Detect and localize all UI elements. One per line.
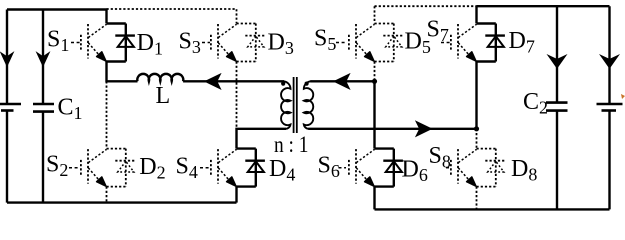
transistor S6 (IGBT): [349, 149, 375, 186]
wire: primary bottom from transformer to S4 (solid): [237, 129, 287, 149]
svg-text:L: L: [156, 83, 171, 109]
wire: capacitor C1 branch vertical: [42, 10, 44, 203]
wire: bottom-left rail: [7, 201, 237, 203]
transistor S3 (IGBT): [211, 24, 237, 61]
inductor L: [137, 74, 183, 81]
polarity dot primary: [281, 82, 285, 86]
battery V2: [597, 104, 623, 111]
transistor S8 (IGBT): [451, 149, 477, 186]
wire: S4 leg solid to bottom rail: [235, 187, 237, 203]
wire: S7 leg from rail: [475, 6, 477, 23]
diode D1 cell frame (solid): [107, 24, 135, 62]
diode D3 cell frame (dotted): [237, 24, 265, 62]
diode D4 cell frame (solid): [237, 149, 265, 187]
wire: secondary bottom to S7/S8 midpoint: [308, 128, 476, 130]
gate lead S3: [202, 42, 210, 44]
wire: battery V1 branch left vertical: [6, 10, 8, 203]
diode D7 cell frame (solid): [477, 24, 505, 62]
node junction secondary-bottom / S7 leg: [474, 126, 479, 131]
transistor S4 (IGBT): [211, 149, 237, 186]
svg-text:n : 1: n : 1: [274, 132, 309, 157]
wire: S1/S2 midpoint to L tap (solid): [107, 62, 138, 82]
wire: battery V2 branch vertical: [608, 6, 610, 209]
gate lead S1: [71, 42, 80, 44]
diode D2 cell frame (dotted): [107, 149, 135, 187]
gate lead S7: [441, 42, 450, 44]
gate lead S5: [336, 42, 346, 44]
capacitor C2: [546, 103, 568, 111]
wire: S8 dotted leg to bottom rail: [476, 187, 478, 210]
transistor S7 (IGBT): [451, 24, 477, 61]
transistor S1 (IGBT): [81, 24, 107, 61]
stray orange mark near right edge: [621, 94, 625, 99]
wire: bottom-right rail: [375, 208, 610, 210]
wire: L to transformer primary top: [183, 80, 284, 82]
wire: S3 dotted leg down to primary-bottom node: [236, 62, 238, 129]
transformer core: [294, 77, 297, 133]
wire: top-right solid rail: [477, 5, 610, 7]
wire: top-left dotted rail to S3 leg: [107, 9, 237, 24]
current arrow on C1 wire: [37, 53, 49, 66]
battery V1: [0, 104, 21, 111]
transformer T1 secondary winding: [304, 81, 313, 129]
wire: dotted leg from L tap down to S2: [106, 81, 108, 148]
current arrow on secondary bottom wire (right): [416, 121, 432, 136]
gate lead S4: [200, 167, 210, 169]
wire: S6 leg solid to bottom rail: [373, 187, 375, 210]
capacitor C1: [33, 104, 54, 112]
current arrow on secondary top wire (left): [334, 74, 350, 89]
wire: solid leg from junction down to S6: [373, 81, 375, 148]
diode D6 cell frame (solid): [375, 149, 403, 187]
wire: S2 leg dotted to bottom rail: [106, 187, 108, 203]
gate lead S8: [446, 167, 450, 169]
gate lead S2: [69, 167, 80, 169]
wire: capacitor C2 branch vertical: [556, 6, 558, 209]
gate lead S6: [339, 167, 347, 169]
transistor S5 (IGBT): [349, 24, 375, 61]
transistor S2 (IGBT): [81, 149, 107, 186]
current arrow on battery V1 wire: [1, 53, 13, 66]
wire: S8 dotted leg from junction: [476, 129, 478, 149]
wire: secondary top to S5/S6 midpoint: [310, 80, 374, 82]
current arrow on battery V2 wire: [601, 55, 619, 68]
wire: S1 leg from rail: [105, 10, 107, 24]
transformer T1 primary winding: [281, 81, 290, 129]
current arrow on C2 wire: [548, 55, 566, 68]
wire: S7 solid leg down to junction: [475, 62, 477, 129]
diode D8 cell frame (dotted): [477, 149, 505, 187]
wire: S5 dotted leg down to junction: [374, 62, 376, 82]
polarity dot secondary: [305, 82, 309, 86]
current arrow on primary top wire (left): [205, 74, 221, 89]
diode D5 cell frame (dotted): [375, 24, 403, 62]
node junction secondary-top / S6 leg: [372, 79, 377, 84]
wire: top-left rail: [7, 8, 107, 10]
wire: top-right dotted rail over S5: [375, 6, 477, 23]
